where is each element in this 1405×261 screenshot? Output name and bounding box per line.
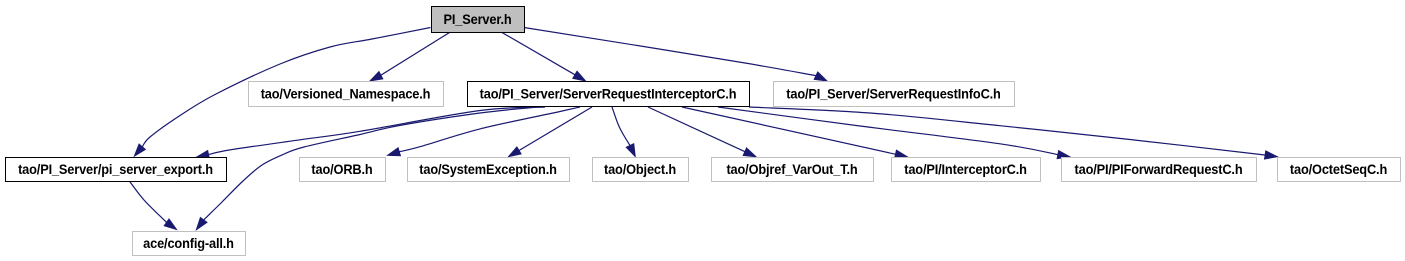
svg-text:tao/PI_Server/ServerRequestInf: tao/PI_Server/ServerRequestInfoC.h <box>786 86 1000 102</box>
node: tao/Versioned_Namespace.h <box>249 82 444 107</box>
node: tao/SystemException.h <box>408 158 570 182</box>
svg-text:tao/Objref_VarOut_T.h: tao/Objref_VarOut_T.h <box>726 161 857 177</box>
node: tao/ORB.h <box>300 158 386 182</box>
edge: ServerRequestInterceptorC.h -> tao/SystemException.h <box>508 107 592 157</box>
edge: PI_Server.h -> tao/Versioned_Namespace.h <box>370 33 450 82</box>
svg-text:tao/OctetSeqC.h: tao/OctetSeqC.h <box>1290 161 1387 177</box>
edge: PI_Server.h -> tao/PI_Server/ServerRequestInterceptorC.h <box>502 33 586 82</box>
edge: tao/PI_Server/pi_server_export.h -> ace/config-all.h <box>129 181 177 230</box>
edge: ServerRequestInterceptorC.h -> tao/Object.h <box>612 107 636 157</box>
edge: ServerRequestInterceptorC.h -> ace/config-all.h <box>196 107 538 230</box>
svg-text:tao/Object.h: tao/Object.h <box>604 161 676 177</box>
node: tao/OctetSeqC.h <box>1278 158 1401 182</box>
svg-text:tao/ORB.h: tao/ORB.h <box>311 161 372 177</box>
edge: PI_Server.h -> tao/PI_Server/pi_server_export.h <box>134 28 431 157</box>
svg-text:tao/PI_Server/ServerRequestInt: tao/PI_Server/ServerRequestInterceptorC.… <box>480 86 737 102</box>
edge: ServerRequestInterceptorC.h -> tao/OctetSeqC.h <box>749 107 1278 159</box>
edge: ServerRequestInterceptorC.h -> tao/PI/InterceptorC.h <box>682 107 908 159</box>
node: tao/PI_Server/ServerRequestInfoC.h <box>774 82 1015 107</box>
svg-text:tao/PI_Server/pi_server_export: tao/PI_Server/pi_server_export.h <box>18 161 213 177</box>
svg-text:tao/SystemException.h: tao/SystemException.h <box>419 161 557 177</box>
node: tao/PI_Server/pi_server_export.h <box>6 158 227 182</box>
node: tao/Objref_VarOut_T.h <box>712 158 874 182</box>
svg-text:tao/PI/PIForwardRequestC.h: tao/PI/PIForwardRequestC.h <box>1075 161 1243 177</box>
svg-text:tao/PI/InterceptorC.h: tao/PI/InterceptorC.h <box>904 161 1027 177</box>
svg-text:tao/Versioned_Namespace.h: tao/Versioned_Namespace.h <box>261 86 431 102</box>
svg-text:ace/config-all.h: ace/config-all.h <box>143 235 234 251</box>
node: ace/config-all.h <box>133 232 246 256</box>
edge: ServerRequestInterceptorC.h -> tao/ORB.h <box>387 107 580 156</box>
node: tao/PI/PIForwardRequestC.h <box>1062 158 1257 182</box>
svg-text:PI_Server.h: PI_Server.h <box>443 11 511 27</box>
edge: ServerRequestInterceptorC.h -> tao/PI/PIForwardRequestC.h <box>718 107 1071 159</box>
edge: ServerRequestInterceptorC.h -> tao/Objref_VarOut_T.h <box>648 107 757 157</box>
node: PI_Server.h <box>432 7 525 33</box>
edge: ServerRequestInterceptorC.h -> tao/PI_Server/pi_server_export.h <box>196 107 545 159</box>
node: tao/PI_Server/ServerRequestInterceptorC.h <box>468 82 750 107</box>
node: tao/Object.h <box>593 158 689 182</box>
node: tao/PI/InterceptorC.h <box>892 158 1041 182</box>
edge: PI_Server.h -> tao/PI_Server/ServerRequestInfoC.h <box>524 28 828 82</box>
